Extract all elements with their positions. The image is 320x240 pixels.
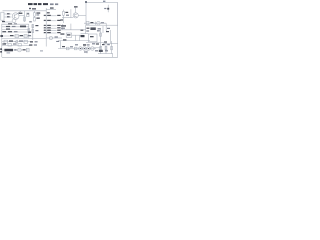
dot on R2 bbox=[27, 13, 29, 14]
pin circle P4 bbox=[91, 47, 94, 50]
title text word3 bbox=[38, 3, 42, 5]
wire row 3 bbox=[2, 28, 29, 30]
row2 label a bbox=[6, 26, 10, 27]
wire drop x75 bbox=[75, 35, 77, 40]
antenna wire inside enclosure bbox=[107, 5, 109, 12]
relay box K2 bbox=[89, 34, 98, 42]
inductor L1 bbox=[49, 36, 52, 39]
bus tap 3 bbox=[44, 25, 57, 27]
diode D1 bbox=[4, 40, 8, 43]
wire mid col bbox=[102, 26, 104, 33]
output col 2 bbox=[105, 43, 107, 54]
label Q3 top bbox=[74, 6, 78, 7]
ledge label bbox=[104, 41, 107, 42]
left edge blob 1 bbox=[0, 35, 3, 37]
connector J1 bbox=[1, 12, 4, 20]
wire R4-R5 bbox=[33, 16, 35, 17]
relay K1 bbox=[66, 33, 71, 37]
row3 label a bbox=[6, 29, 10, 30]
output col 3 bbox=[111, 43, 113, 54]
antenna blob bbox=[107, 8, 109, 10]
bottom dark bar bbox=[83, 44, 86, 45]
tick near R2 bbox=[29, 8, 31, 9]
transistor Q1 internals bbox=[14, 14, 17, 19]
main vertical bus bbox=[45, 8, 47, 38]
row1 label a bbox=[8, 23, 12, 24]
wire right ledge bbox=[103, 42, 118, 44]
right chain wire bbox=[84, 22, 106, 24]
label C12 bbox=[35, 30, 38, 31]
row2 cluster bbox=[20, 26, 26, 28]
resistor R19 bbox=[105, 46, 107, 49]
tap3 label bbox=[47, 25, 51, 26]
right col label 1 bbox=[86, 28, 89, 29]
resistor R7 bbox=[28, 29, 30, 33]
resistor R17 bbox=[100, 33, 102, 36]
bus tap 6 bbox=[44, 32, 57, 34]
tap1 left pin bbox=[44, 15, 46, 16]
outcol label 0 bbox=[96, 43, 99, 44]
bottom wire bbox=[58, 48, 96, 50]
label R1 above rail bbox=[32, 8, 36, 9]
resistor R5 bbox=[34, 17, 36, 21]
pilot lamp LP1 bbox=[18, 48, 22, 52]
bus tap 4 bbox=[44, 27, 57, 29]
mid chain vertical bbox=[32, 24, 34, 40]
tap1 label bbox=[47, 15, 51, 16]
label under pins bbox=[84, 51, 88, 52]
diode D2 bbox=[15, 40, 18, 43]
wire bottom right bus bbox=[98, 53, 113, 55]
transistor Q2 bbox=[12, 19, 16, 23]
wire Q1 output bbox=[19, 15, 25, 17]
wire tick bbox=[94, 22, 96, 25]
label C8 bbox=[66, 15, 69, 16]
wire relay right bbox=[72, 34, 84, 36]
tap2 label bbox=[47, 20, 51, 21]
pin circle P3 bbox=[87, 47, 90, 50]
right label x97 top bbox=[97, 30, 100, 31]
labels center-right row1 bbox=[61, 25, 66, 26]
ground rail right bbox=[58, 40, 90, 42]
labels bottom mid row2 bbox=[29, 44, 32, 45]
label lower left wire bbox=[2, 21, 5, 22]
chain3 label a bbox=[2, 43, 6, 44]
resistor R2 bbox=[27, 13, 29, 17]
bus top label bbox=[50, 7, 54, 8]
wire top mid bbox=[75, 8, 77, 13]
bottom wire label 1 bbox=[62, 46, 65, 47]
outcol label 2 bbox=[107, 44, 110, 45]
tap3 left pin bbox=[44, 25, 46, 26]
tap4 label bbox=[47, 27, 51, 28]
label rail end bbox=[56, 41, 59, 42]
wire to border bbox=[112, 54, 114, 58]
chain3 label b bbox=[13, 43, 17, 44]
wire tick x111 bbox=[111, 41, 113, 44]
left edge stub 2 bbox=[0, 51, 2, 53]
outcol lower label 1 bbox=[95, 50, 98, 51]
tap4 net bbox=[57, 27, 60, 28]
corner tick bbox=[85, 1, 87, 3]
label R4 bbox=[36, 12, 40, 13]
wire cap top bbox=[62, 10, 64, 12]
resistor R4 bbox=[34, 13, 36, 17]
wire right rail bbox=[86, 41, 106, 43]
wire right col left bbox=[85, 25, 87, 33]
row1 label b bbox=[14, 23, 17, 24]
labels bottom mid row bbox=[30, 41, 33, 42]
right label x80 bbox=[81, 30, 84, 31]
row4 label a bbox=[2, 31, 6, 32]
resistor R3 bbox=[24, 17, 26, 21]
wire cap drop bbox=[63, 18, 65, 23]
chain2 label b bbox=[19, 40, 23, 41]
transistor Q3 internals bbox=[75, 14, 78, 18]
tap5 left pin bbox=[44, 30, 46, 31]
bus tap 2 bbox=[44, 20, 57, 22]
right chain label 2 bbox=[101, 22, 104, 23]
output col 1 bbox=[100, 43, 102, 54]
wire Q1 collector arc bbox=[18, 11, 22, 14]
wire right bus bbox=[28, 24, 30, 38]
wire bus tail bbox=[45, 38, 47, 46]
wire row 2 bbox=[2, 26, 29, 28]
bus tap 5 bbox=[44, 30, 57, 32]
right dark cluster bbox=[81, 35, 85, 37]
title text word2 bbox=[34, 3, 38, 5]
labels center-right row2 bbox=[61, 28, 65, 29]
wire right drop 1 bbox=[105, 23, 107, 31]
tap2 net bbox=[57, 20, 60, 21]
row2 label b bbox=[12, 26, 16, 27]
label near LP1 bbox=[23, 49, 26, 50]
label R5 bbox=[36, 18, 39, 19]
label J1 pin2 bbox=[7, 16, 10, 17]
mid right rail bbox=[60, 29, 86, 31]
label under rail right bbox=[92, 43, 95, 44]
resistor R9 bbox=[8, 44, 11, 46]
tap4 left pin bbox=[44, 27, 46, 28]
bottom left wire bbox=[2, 49, 29, 51]
label Q1 bbox=[19, 13, 23, 14]
switch SW1 bbox=[26, 48, 29, 51]
wire J1 pin1 bbox=[4, 13, 12, 15]
label gnd rail bbox=[63, 39, 66, 40]
right col label 2 bbox=[98, 28, 101, 29]
wire node A vertical bbox=[24, 11, 26, 22]
transistor Q1 bbox=[12, 13, 19, 20]
label L1 bbox=[55, 36, 58, 37]
faint mark bottom center bbox=[40, 50, 43, 51]
bus cluster blob bbox=[28, 31, 31, 33]
capacitor C12 bbox=[32, 30, 34, 33]
border bottom bbox=[2, 56, 118, 58]
notes dark bar bbox=[4, 49, 13, 52]
wire cap mid bbox=[62, 15, 64, 17]
resistor R18 bbox=[100, 46, 102, 49]
row4 label c bbox=[14, 31, 18, 32]
resistor R20 bbox=[111, 46, 113, 49]
tap5 label bbox=[47, 30, 51, 31]
bus tap 1 bbox=[44, 15, 57, 17]
wire drop x62 bbox=[62, 24, 64, 30]
labels bottom mid row b bbox=[35, 41, 38, 42]
label K1 inside bbox=[67, 34, 70, 35]
wire right col stub bbox=[81, 33, 89, 35]
right chain label 1 bbox=[90, 22, 93, 23]
tap6 net bbox=[57, 32, 60, 33]
capacitor C5 bbox=[15, 35, 18, 38]
enclosure box bbox=[86, 3, 118, 26]
capacitor C7 bbox=[24, 40, 27, 43]
pin circle P2 bbox=[83, 47, 86, 50]
wire mid rail bbox=[2, 37, 46, 39]
label C4 bbox=[65, 12, 68, 13]
right label x106 bbox=[106, 31, 109, 32]
chain1 label c bbox=[28, 35, 31, 36]
wire bus bottom bbox=[46, 37, 62, 39]
capacitor C4 bbox=[63, 11, 65, 15]
tap6 label bbox=[47, 32, 51, 33]
label K2 inside bbox=[90, 36, 94, 37]
resistor R15 bbox=[86, 21, 89, 24]
label C11 bbox=[35, 25, 38, 26]
outcol lower label 2 bbox=[105, 50, 108, 51]
wire J1 pin2 bbox=[4, 16, 12, 18]
wire lower left bbox=[2, 21, 12, 23]
label R4 value bbox=[36, 14, 39, 15]
wire drop x87 bbox=[86, 50, 88, 53]
row4 label b bbox=[8, 31, 12, 32]
chain2 label a bbox=[9, 40, 13, 41]
labels bottom mid row2 b bbox=[34, 44, 37, 45]
label J1 pin1 bbox=[7, 13, 10, 14]
transistor Q4 bbox=[97, 21, 101, 25]
pin ticks bbox=[79, 48, 82, 49]
bottom wire label 2 bbox=[70, 46, 73, 47]
capacitor C9 bbox=[66, 47, 69, 50]
title rev bbox=[50, 3, 54, 5]
right col label 3 bbox=[107, 28, 110, 29]
wire left of cols bbox=[94, 47, 101, 49]
resistor R10 bbox=[18, 44, 21, 46]
chain1 label b bbox=[20, 35, 23, 36]
tap5 net bbox=[57, 30, 60, 31]
antenna side dash bbox=[104, 8, 106, 9]
chain1 label a bbox=[10, 35, 14, 36]
wire col x110 bbox=[109, 30, 111, 43]
outcol label 1 bbox=[102, 44, 105, 45]
capacitor C6 bbox=[24, 35, 27, 38]
bus label mid bbox=[47, 12, 50, 13]
chain 1 wire bbox=[2, 35, 32, 37]
border right bbox=[117, 3, 119, 58]
faint notes line 2 bbox=[7, 52, 11, 53]
wire drop x70 bbox=[70, 24, 72, 30]
left edge stub 1 bbox=[0, 48, 2, 50]
wire Q3 left bbox=[62, 17, 73, 19]
notes dash bbox=[14, 49, 16, 50]
wire col x100 bbox=[100, 28, 102, 42]
tap6 left pin bbox=[44, 32, 46, 33]
pin circle P1 bbox=[79, 47, 82, 50]
right col cluster bbox=[90, 27, 95, 30]
bottom label left bbox=[75, 44, 78, 45]
outcol lower cluster bbox=[99, 50, 103, 52]
label mid top bbox=[29, 21, 32, 22]
bus tap row0 bbox=[46, 9, 56, 11]
left bus vertical bbox=[1, 24, 3, 58]
capacitor C11 bbox=[32, 25, 34, 28]
chain 2 wire bbox=[2, 41, 32, 43]
wire drop x60 bbox=[60, 41, 62, 49]
wire drop x79 bbox=[79, 35, 81, 40]
label cap drop bbox=[60, 19, 63, 20]
chain 3 rail bbox=[2, 45, 30, 47]
wire row 4 bbox=[2, 31, 29, 33]
tap3 net bbox=[57, 25, 60, 26]
label K1 left bbox=[60, 33, 64, 34]
title text word4 bbox=[43, 3, 48, 5]
wire spare vertical bbox=[70, 9, 72, 17]
title text word1 bbox=[28, 3, 33, 5]
top supply rail bbox=[3, 10, 47, 12]
right label x86 bbox=[86, 30, 89, 31]
title date bbox=[55, 3, 58, 5]
wire Q3 to box bbox=[78, 14, 86, 16]
bottom dark bar b bbox=[87, 44, 90, 45]
tap1 net bbox=[57, 15, 60, 16]
capacitor C10 bbox=[74, 47, 77, 50]
transistor Q3 bbox=[73, 13, 78, 18]
sheet number bbox=[103, 1, 105, 2]
wire R4 top bbox=[33, 11, 35, 13]
wire row 1 bbox=[2, 23, 29, 25]
tap2 left pin bbox=[44, 20, 46, 21]
